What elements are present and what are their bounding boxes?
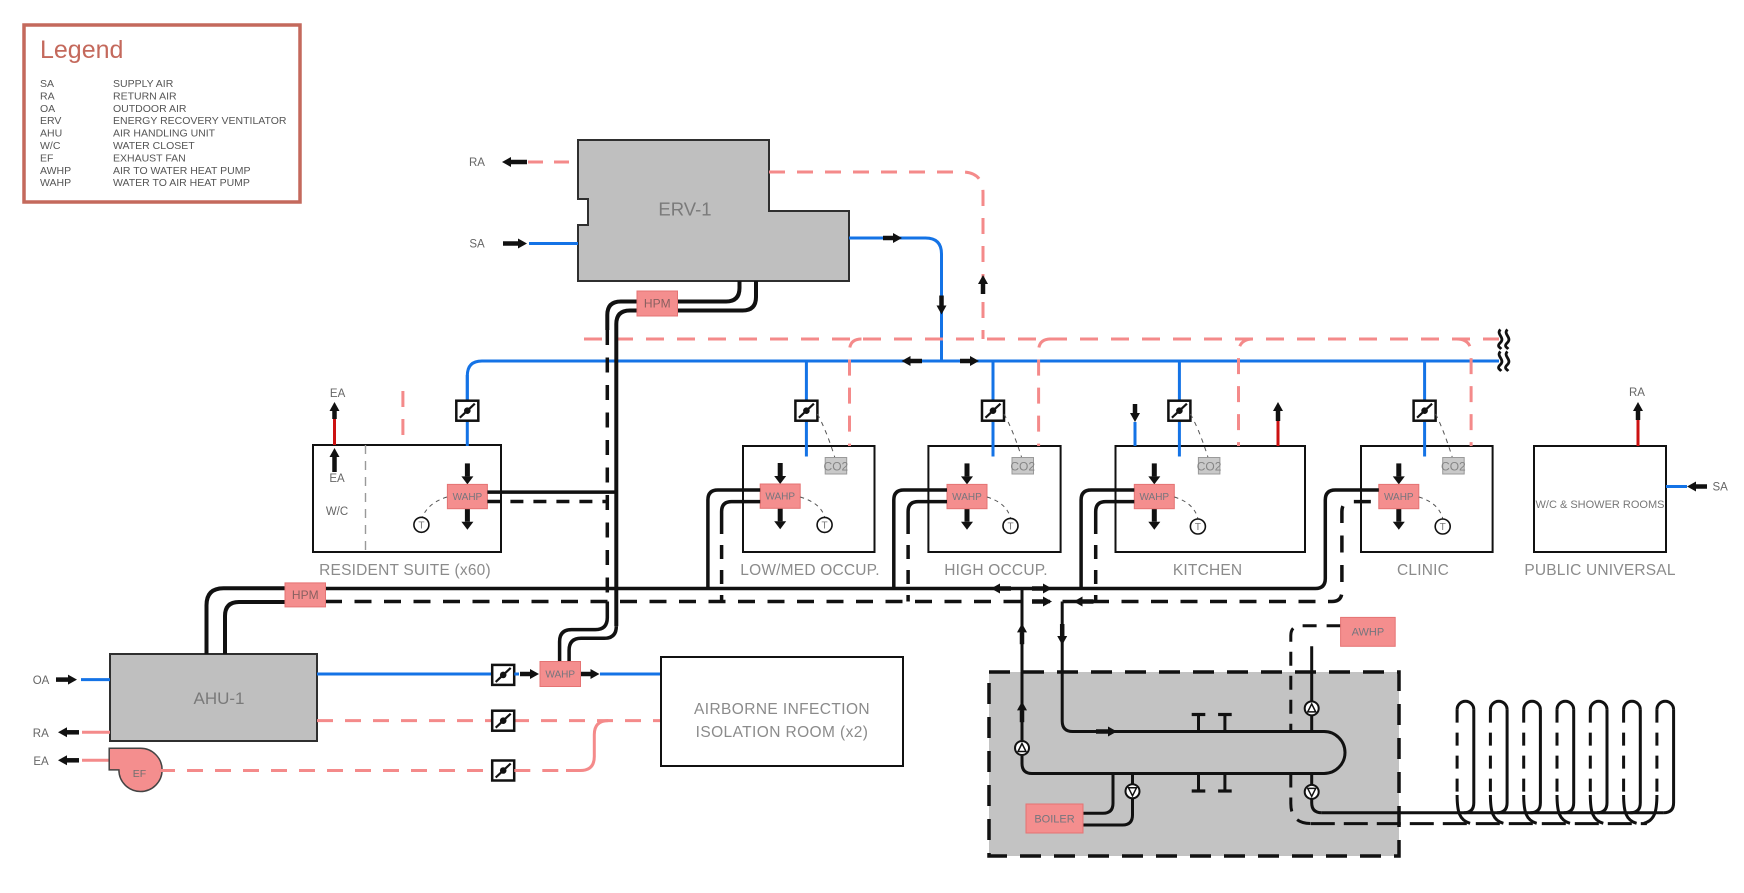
CO2 sensor low/med — [824, 458, 849, 475]
leader WAHP resident to thermostat — [423, 497, 448, 517]
supply drop to low/med occup — [805, 361, 808, 401]
supply arrow into WAHP high — [961, 463, 973, 484]
discharge arrow from WAHP high — [961, 509, 973, 530]
header sensor well bottom x=1224.9 — [1218, 774, 1232, 792]
hydraulic separator header — [1022, 732, 1345, 774]
supply drop to high occup — [992, 361, 995, 401]
supply drop to resident suite — [466, 375, 469, 401]
primary pump — [1015, 741, 1029, 755]
supply arrow into WAHP resident — [461, 463, 473, 484]
resident WAHP return pipe to dashed riser — [487, 500, 607, 504]
return bus continuation squiggle — [1499, 330, 1502, 350]
ground loop finger 1 return leg (dashed) — [1456, 710, 1459, 799]
left riser (dashed) from HPM to return water main — [606, 330, 610, 602]
svg-text:WAHP: WAHP — [40, 177, 71, 189]
svg-text:T: T — [1195, 522, 1201, 533]
supply drop to kitchen — [1178, 361, 1181, 401]
svg-text:CO2: CO2 — [1197, 460, 1222, 474]
svg-text:W/C & SHOWER ROOMS: W/C & SHOWER ROOMS — [1536, 499, 1665, 511]
flow arrow return main toward plant — [1074, 597, 1094, 607]
ground loop supply from header bottom with pump — [1312, 774, 1322, 813]
svg-text:Legend: Legend — [40, 36, 123, 64]
EF exhaust fan — [109, 748, 162, 791]
RA dashed drop high occup — [1039, 339, 1051, 446]
down flow arrow on plant return — [1057, 624, 1067, 645]
svg-text:AIR HANDLING UNIT: AIR HANDLING UNIT — [113, 128, 216, 140]
left flow arrow on supply bus — [902, 356, 923, 366]
svg-text:CO2: CO2 — [824, 460, 849, 474]
CO2 sensor kitchen — [1197, 458, 1222, 475]
WAHP kitchen return riser (dashed) to return main — [1094, 520, 1098, 602]
WAHP low/med return riser (dashed) to return main — [720, 520, 724, 602]
EA dashed duct from EF fan — [159, 769, 492, 772]
supply damper for clinic — [1414, 401, 1436, 421]
ground loop finger 5 return leg (dashed) — [1589, 710, 1592, 799]
SA duct from ERV to supply bus — [849, 238, 942, 361]
svg-text:T: T — [1007, 521, 1013, 532]
flow arrow on ERV supply — [883, 233, 902, 243]
svg-text:RA: RA — [40, 90, 55, 102]
supply arrow into WAHP kitchen — [1148, 463, 1160, 484]
supply damper for high occup — [982, 401, 1004, 421]
svg-text:RA: RA — [469, 157, 485, 169]
thermostat clinic — [1435, 519, 1450, 534]
resident suite W/C divider — [365, 445, 367, 552]
WAHP unit kitchen — [1134, 484, 1174, 508]
exhaust arrow above kitchen — [1273, 402, 1283, 421]
thermostat high — [1003, 518, 1018, 533]
svg-text:HIGH OCCUP.: HIGH OCCUP. — [944, 562, 1048, 579]
EA up arrow inside resident suite — [330, 448, 340, 472]
svg-text:EXHAUST FAN: EXHAUST FAN — [113, 152, 186, 164]
up flow arrow on plant supply riser (upper) — [1017, 623, 1027, 644]
RA arrow out of ERV — [502, 157, 527, 167]
RA dashed duct from ERV to return bus riser — [769, 172, 983, 339]
leader from damper to CO2 sensor (clinic) — [1436, 414, 1453, 457]
WAHP unit low/med — [760, 484, 800, 508]
ground loop finger 2 supply leg — [1497, 710, 1507, 813]
flow arrow supply main right — [1032, 584, 1052, 594]
svg-text:OA: OA — [33, 675, 50, 687]
AWHP air-to-water heat pump — [1341, 617, 1396, 646]
RA dashed duct into ERV — [528, 161, 578, 164]
svg-text:W/C: W/C — [40, 140, 61, 152]
svg-text:ISOLATION ROOM (x2): ISOLATION ROOM (x2) — [696, 724, 869, 741]
supply bus continuation squiggle — [1499, 352, 1502, 372]
header sensor well top x=1198.5 — [1192, 715, 1206, 732]
svg-text:WAHP: WAHP — [765, 492, 795, 503]
water return main (dashed) from HPM to clinic — [325, 502, 1379, 602]
EA duct stub — [82, 759, 114, 762]
svg-text:EA: EA — [33, 756, 49, 768]
ground loop finger 4 return leg (dashed) — [1556, 710, 1559, 799]
flow arrow on header top — [1096, 727, 1117, 737]
svg-text:CO2: CO2 — [1010, 460, 1035, 474]
supply damper for low/med occup — [795, 401, 817, 421]
ground loop finger 7 supply leg — [1664, 710, 1674, 813]
discharge arrow from WAHP resident — [461, 509, 473, 530]
thermostat resident — [414, 517, 429, 532]
RA dashed stub above resident suite — [401, 391, 404, 445]
boiler pump — [1126, 784, 1140, 798]
down flow arrow on ERV supply drop — [937, 296, 947, 315]
flow arrow into AHU WAHP — [520, 669, 539, 679]
room: KITCHEN — [1116, 446, 1306, 579]
return air bus (salmon dashed) — [584, 338, 1499, 341]
room: CLINIC — [1361, 446, 1493, 579]
SA arrow into ERV — [503, 239, 527, 249]
plant return downcomer from return main to header — [1062, 602, 1324, 732]
WAHP low/med supply pipe+riser from solid main — [708, 490, 760, 589]
RA dashed drop clinic — [1457, 339, 1472, 446]
svg-text:CO2: CO2 — [1441, 460, 1466, 474]
ground loop finger 1 cap — [1457, 701, 1474, 709]
HPM pipe upper into AHU — [207, 588, 286, 654]
supply arrow into WAHP low/med — [774, 463, 786, 484]
svg-text:WAHP: WAHP — [545, 670, 575, 681]
down arrow into kitchen — [1130, 404, 1140, 422]
plant room enclosure — [989, 672, 1399, 856]
AHU-1 unit — [110, 654, 317, 741]
ground loop finger 5 cap — [1590, 701, 1607, 709]
room: PUBLIC UNIVERSAL — [1524, 446, 1676, 579]
hot water pipe from ERV (upper) through HPM to left riser — [607, 281, 739, 330]
ground loop finger 3 cap — [1524, 701, 1541, 709]
EA duct S-rise joining RA duct — [566, 721, 608, 771]
svg-text:OA: OA — [40, 103, 55, 115]
supply arrow into WAHP clinic — [1393, 463, 1405, 484]
boiler supply pipe — [1083, 774, 1113, 814]
ground loop finger 2 cap — [1490, 701, 1507, 709]
WAHP high supply pipe+riser from solid main — [894, 490, 947, 589]
svg-text:BOILER: BOILER — [1034, 813, 1074, 825]
supply air bus (blue) — [467, 361, 1499, 401]
ground loop finger 1 supply leg — [1464, 710, 1474, 813]
SA duct damper to arrow — [514, 673, 519, 676]
HPM pipe lower into AHU — [225, 602, 285, 654]
svg-text:ENERGY RECOVERY VENTILATOR: ENERGY RECOVERY VENTILATOR — [113, 115, 287, 127]
flow arrow out of AHU WAHP — [581, 669, 600, 679]
CO2 sensor clinic — [1441, 458, 1466, 475]
supply damper for kitchen — [1168, 401, 1190, 421]
ground loop finger 6 return leg (dashed) — [1622, 710, 1625, 799]
WAHP low/med return pipe elbow — [722, 502, 761, 520]
damper on AHU return — [492, 711, 514, 731]
svg-text:HPM: HPM — [644, 297, 671, 311]
svg-text:PUBLIC UNIVERSAL: PUBLIC UNIVERSAL — [1524, 562, 1676, 579]
svg-text:ERV: ERV — [40, 115, 61, 127]
RA dashed drop low/med occup — [850, 339, 862, 446]
leader WAHP clinic to thermostat — [1419, 497, 1443, 519]
EA dashed duct continues after damper — [514, 769, 569, 772]
svg-text:KITCHEN: KITCHEN — [1173, 562, 1242, 579]
HPM heat pump module at ERV — [637, 291, 678, 316]
SA duct into ERV — [529, 242, 578, 245]
OA duct — [81, 678, 110, 681]
hot water pipe from ERV (lower) to right riser — [616, 281, 756, 626]
ground loop pump — [1305, 785, 1319, 799]
room: LOW/MED OCCUP. — [740, 446, 879, 579]
thermostat kitchen — [1190, 519, 1205, 534]
svg-text:AIR TO WATER HEAT PUMP: AIR TO WATER HEAT PUMP — [113, 165, 251, 177]
thermostat low/med — [817, 517, 832, 532]
kitchen red exhaust duct — [1277, 421, 1280, 446]
svg-text:EF: EF — [133, 768, 146, 780]
discharge arrow from WAHP clinic — [1393, 509, 1405, 530]
SA duct into public universal — [1666, 485, 1687, 488]
svg-text:EF: EF — [40, 152, 53, 164]
WAHP kitchen return pipe elbow — [1096, 502, 1135, 520]
svg-text:SA: SA — [40, 78, 54, 90]
svg-text:AIRBORNE INFECTION: AIRBORNE INFECTION — [694, 701, 870, 718]
svg-text:ERV-1: ERV-1 — [658, 199, 711, 220]
ground loop finger 4 supply leg — [1564, 710, 1574, 813]
WAHP unit resident — [447, 484, 487, 508]
EA arrow from EF fan — [58, 755, 79, 765]
svg-text:RA: RA — [33, 728, 49, 740]
svg-text:T: T — [1440, 522, 1446, 533]
leader WAHP low/med to thermostat — [800, 497, 824, 517]
RA dashed duct AHU to isolation room — [317, 719, 661, 722]
svg-text:AWHP: AWHP — [1352, 627, 1385, 639]
leader WAHP high to thermostat — [987, 497, 1011, 518]
svg-text:AHU-1: AHU-1 — [193, 689, 244, 708]
HPM heat pump module at AHU — [285, 583, 326, 607]
ground loop finger 4 cap — [1557, 701, 1574, 709]
supply damper for resident suite — [456, 401, 478, 421]
svg-text:CLINIC: CLINIC — [1397, 562, 1449, 579]
ERV-1 unit — [578, 140, 849, 281]
ground loop supply header line — [1322, 811, 1664, 814]
svg-text:WATER CLOSET: WATER CLOSET — [113, 140, 195, 152]
svg-text:SUPPLY AIR: SUPPLY AIR — [113, 78, 174, 90]
AWHP return dashed pipe (below header) to ground loop — [1291, 774, 1311, 824]
legend box — [24, 25, 300, 202]
AWHP supply pipe from header with pump — [1310, 646, 1313, 731]
ground loop finger 6 supply leg — [1630, 710, 1640, 813]
WAHP kitchen supply pipe+riser from solid main — [1081, 490, 1134, 589]
ground loop finger 3 supply leg — [1530, 710, 1540, 813]
svg-text:RETURN AIR: RETURN AIR — [113, 90, 177, 102]
svg-text:SA: SA — [469, 239, 485, 251]
right flow arrow on supply bus — [960, 356, 979, 366]
ground loop return header line (dashed) — [1311, 822, 1647, 825]
leader from damper to CO2 sensor (high) — [1004, 414, 1022, 457]
ground loop finger 7 return leg (dashed) — [1655, 710, 1658, 799]
room: HIGH OCCUP. — [928, 446, 1060, 579]
svg-text:T: T — [822, 520, 828, 531]
SA arrow into public universal — [1687, 482, 1707, 492]
svg-text:W/C: W/C — [326, 506, 348, 518]
svg-text:HPM: HPM — [292, 588, 319, 602]
WAHP high return pipe elbow — [908, 502, 947, 520]
leader from damper to CO2 sensor (low/med) — [817, 414, 834, 457]
svg-text:WATER TO AIR HEAT PUMP: WATER TO AIR HEAT PUMP — [113, 177, 250, 189]
flow arrow supply main left — [991, 584, 1011, 594]
flow arrow return main right — [1032, 597, 1052, 607]
svg-text:RESIDENT SUITE (x60): RESIDENT SUITE (x60) — [319, 562, 491, 579]
up flow arrow on plant supply riser (lower) — [1017, 701, 1027, 722]
svg-text:LOW/MED OCCUP.: LOW/MED OCCUP. — [740, 562, 879, 579]
ground loop finger 5 supply leg — [1597, 710, 1607, 813]
svg-text:WAHP: WAHP — [453, 492, 483, 503]
svg-text:T: T — [418, 520, 424, 531]
RA arrow above public universal — [1633, 402, 1643, 420]
legend items — [40, 78, 287, 189]
svg-text:AHU: AHU — [40, 128, 62, 140]
up flow arrow on return riser — [978, 275, 988, 294]
WAHP high return riser (dashed) to return main — [906, 520, 910, 602]
plant supply riser from header to supply main — [1021, 589, 1024, 741]
EA red exhaust duct above resident suite — [333, 419, 336, 445]
ground loop finger 2 return leg (dashed) — [1489, 710, 1492, 799]
AWHP supply pump — [1305, 701, 1319, 715]
resident WAHP supply pipe to solid riser — [487, 490, 616, 494]
discharge arrow from WAHP low/med — [774, 508, 786, 529]
left riser solid continuation to AHU WAHP — [560, 602, 608, 663]
svg-text:OUTDOOR AIR: OUTDOOR AIR — [113, 103, 187, 115]
hot water supply main (solid) from HPM to clinic — [325, 490, 1379, 589]
right riser S-bend into AHU WAHP — [569, 626, 616, 662]
airborne infection isolation room — [661, 657, 903, 766]
WAHP unit clinic — [1379, 484, 1419, 508]
header sensor well top x=1224.9 — [1218, 715, 1232, 732]
RA duct stub — [82, 731, 110, 734]
svg-text:WAHP: WAHP — [952, 492, 982, 503]
RA red exhaust above public universal — [1637, 420, 1640, 446]
svg-text:WAHP: WAHP — [1139, 492, 1169, 503]
damper on EF exhaust — [492, 761, 514, 781]
svg-text:EA: EA — [329, 473, 345, 485]
discharge arrow from WAHP kitchen — [1148, 509, 1160, 530]
ground loop finger 7 cap — [1657, 701, 1674, 709]
ground loop finger 6 cap — [1624, 701, 1641, 709]
WAHP unit at AHU — [540, 662, 581, 687]
svg-text:WAHP: WAHP — [1384, 492, 1414, 503]
RA dashed drop kitchen — [1239, 339, 1254, 446]
svg-text:EA: EA — [330, 388, 346, 400]
leader from damper to CO2 sensor (kitchen) — [1190, 414, 1208, 457]
svg-text:AWHP: AWHP — [40, 165, 71, 177]
EA arrow above resident suite — [330, 402, 340, 419]
svg-text:SA: SA — [1713, 482, 1729, 494]
leader WAHP kitchen to thermostat — [1174, 497, 1198, 519]
ground loop finger 3 return leg (dashed) — [1522, 710, 1525, 799]
damper on AHU supply — [492, 665, 514, 685]
svg-text:RA: RA — [1629, 387, 1645, 399]
SA duct into isolation room — [600, 673, 669, 676]
header sensor well bottom x=1198.5 — [1192, 774, 1206, 792]
RA arrow out of AHU — [58, 727, 79, 737]
supply drop to clinic — [1423, 361, 1426, 401]
CO2 sensor high — [1010, 458, 1035, 475]
boiler — [1026, 804, 1083, 833]
OA arrow into AHU — [56, 675, 77, 685]
SA duct from AHU through damper — [317, 673, 492, 676]
AWHP return dashed pipe (upper part) — [1291, 626, 1341, 732]
WAHP unit high — [947, 484, 987, 508]
boiler return pipe with pump — [1083, 774, 1133, 826]
room: RESIDENT SUITE (x60) — [313, 445, 501, 579]
